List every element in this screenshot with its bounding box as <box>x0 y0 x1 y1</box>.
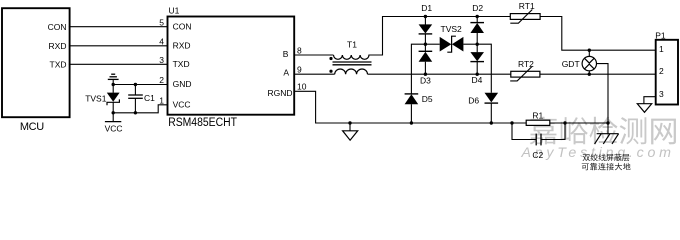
node D5 bottom junction <box>410 121 413 124</box>
wire bottom rail RGND <box>350 122 608 124</box>
wire TVS1/C1 bottom row to pin1 jog <box>113 105 167 113</box>
svg-text:D2: D2 <box>472 3 483 13</box>
wire CON (MCU to U1 pin 5) <box>69 26 168 28</box>
wire RXD (MCU to U1 pin 4) <box>69 45 168 47</box>
MCU block U? <box>2 8 70 133</box>
diode D3 <box>419 44 433 85</box>
wire U1 pin 10 (RGND) to bottom rail <box>294 91 350 123</box>
diode D2 <box>470 3 484 44</box>
node R1 left junction <box>510 121 513 124</box>
wire T1 top winding right to top rail <box>368 17 510 56</box>
diode D1 <box>419 3 433 44</box>
wire TXD (MCU to U1 pin 3) <box>69 63 168 65</box>
svg-text:RXD: RXD <box>173 41 191 51</box>
node D2/D4/TVS2/D6 junction <box>476 43 479 46</box>
node R1 right junction <box>563 121 566 124</box>
svg-text:TVS1: TVS1 <box>85 93 107 103</box>
wire U1 pin 9 (A) to T1 <box>294 73 334 75</box>
svg-text:4: 4 <box>159 36 164 46</box>
diode D6 <box>468 93 498 123</box>
ground chassis earth <box>595 134 619 144</box>
node C1 top junction <box>134 83 137 86</box>
TVS2 bidirectional <box>425 24 477 52</box>
svg-text:GDT: GDT <box>562 59 580 69</box>
svg-text:CON: CON <box>48 22 67 32</box>
svg-text:A: A <box>283 68 289 78</box>
wire P1 pin3 to ground <box>644 97 656 104</box>
svg-text:D6: D6 <box>468 95 479 105</box>
ground (signal ground above GND net) <box>108 74 119 84</box>
svg-text:3: 3 <box>159 55 164 65</box>
svg-text:3: 3 <box>659 89 664 99</box>
diode TVS1 <box>85 85 119 122</box>
note text line 1 <box>583 154 630 161</box>
connector P1 <box>655 30 678 104</box>
node D4 bottom junction <box>476 73 479 76</box>
node D1 top junction <box>424 15 427 18</box>
svg-text:1: 1 <box>659 44 664 54</box>
wire GND row (U1 pin 2 net) <box>113 84 167 86</box>
svg-text:9: 9 <box>297 65 302 75</box>
svg-text:P1: P1 <box>655 30 666 40</box>
resistor R1 <box>526 110 550 125</box>
svg-text:B: B <box>283 49 289 59</box>
svg-text:8: 8 <box>297 45 302 55</box>
watermark chinese 嘉峪检测网 <box>530 117 676 145</box>
svg-text:C2: C2 <box>532 150 543 160</box>
capacitor C2 <box>512 123 565 160</box>
svg-text:RT2: RT2 <box>518 59 534 69</box>
svg-text:5: 5 <box>159 17 164 27</box>
node GDT top junction <box>588 49 591 52</box>
svg-text:VCC: VCC <box>105 124 123 134</box>
svg-text:D4: D4 <box>472 75 483 85</box>
power VCC rail symbol <box>105 122 123 134</box>
svg-text:D3: D3 <box>420 76 431 86</box>
svg-text:VCC: VCC <box>173 100 191 110</box>
thermistor RT1 <box>510 1 540 23</box>
svg-text:MCU: MCU <box>20 121 44 133</box>
ground (P1 pin3 open triangle) <box>637 104 651 113</box>
svg-text:RSM485ECHT: RSM485ECHT <box>168 115 237 129</box>
svg-text:U1: U1 <box>169 6 180 16</box>
svg-text:TXD: TXD <box>50 60 67 70</box>
node D6 bottom junction <box>490 121 493 124</box>
svg-text:RGND: RGND <box>267 88 292 98</box>
node D3 bottom junction <box>424 73 427 76</box>
wire A row (T1 bottom to RT2) <box>368 73 511 75</box>
svg-text:TVS2: TVS2 <box>441 24 463 34</box>
wire GDT tap to earth <box>597 64 609 134</box>
svg-text:1: 1 <box>159 95 164 105</box>
wire RT1 to P1 pin1 <box>540 17 656 51</box>
node GDT bottom junction <box>588 73 591 76</box>
thermistor RT2 <box>510 59 540 81</box>
svg-text:GND: GND <box>173 79 192 89</box>
svg-text:TXD: TXD <box>173 59 190 69</box>
node TVS1 top junction <box>112 83 115 86</box>
svg-text:C1: C1 <box>144 93 155 103</box>
node RGND ground junction <box>348 121 351 124</box>
node D2 top junction <box>476 15 479 18</box>
capacitor C1 <box>128 85 155 113</box>
ground (RGND open triangle) <box>343 123 358 140</box>
diode D5 <box>405 94 433 123</box>
svg-text:RXD: RXD <box>49 41 67 51</box>
node rail end junction <box>606 121 609 124</box>
note text line 2 <box>582 163 631 170</box>
op chip U1 RSM485ECHT <box>168 6 295 130</box>
svg-text:R1: R1 <box>532 110 543 120</box>
gas discharge tube GDT <box>562 50 597 74</box>
svg-text:D1: D1 <box>421 3 432 13</box>
svg-text:D5: D5 <box>422 94 433 104</box>
svg-text:2: 2 <box>159 75 164 85</box>
node D1/D3/TVS2/D5 junction <box>424 43 427 46</box>
diode D4 <box>470 44 484 85</box>
wire jog node to D5 column <box>411 44 425 93</box>
svg-text:CON: CON <box>173 21 192 31</box>
node TVS1 bottom junction <box>112 111 115 114</box>
wire RT2 to P1 pin2 <box>540 73 656 75</box>
wire U1 pin 8 (B) to T1 <box>294 54 333 56</box>
svg-text:RT1: RT1 <box>519 1 535 11</box>
transformer T1 <box>329 40 371 75</box>
svg-text:T1: T1 <box>347 40 357 50</box>
wire jog node to D6 column <box>477 44 491 93</box>
svg-text:10: 10 <box>297 82 307 92</box>
svg-text:2: 2 <box>659 66 664 76</box>
node C1 bottom junction <box>134 111 137 114</box>
